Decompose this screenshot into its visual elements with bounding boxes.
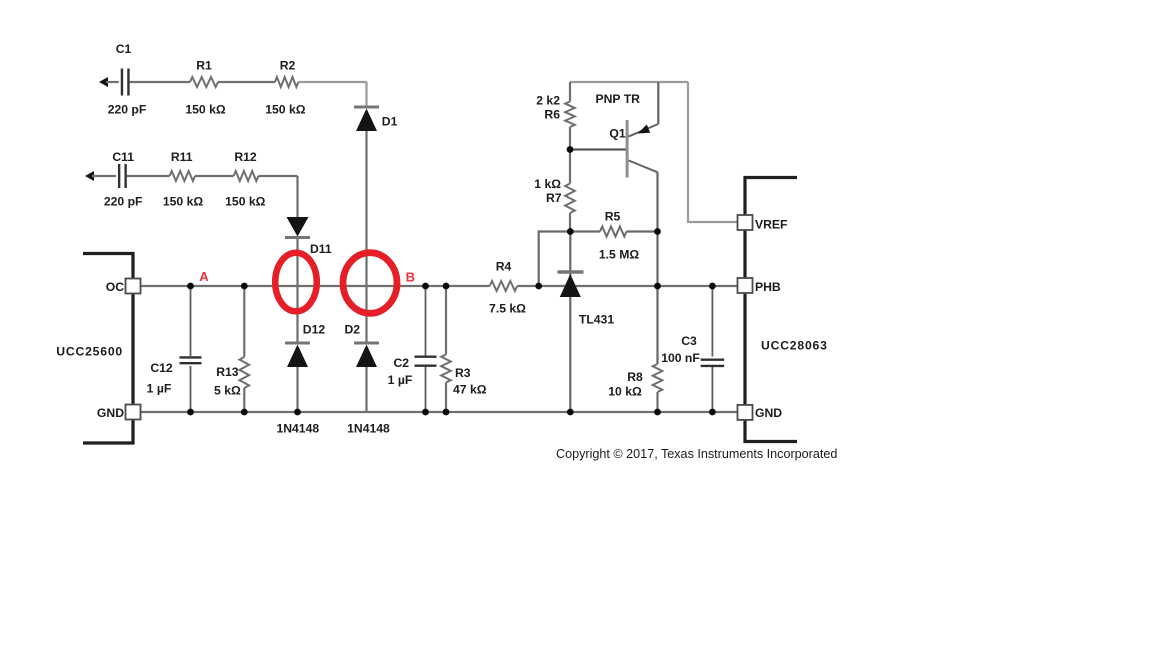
svg-text:D2: D2	[345, 323, 361, 337]
svg-text:A: A	[199, 269, 209, 284]
svg-text:R4: R4	[496, 260, 512, 274]
svg-text:PHB: PHB	[755, 280, 781, 294]
svg-text:C2: C2	[394, 356, 410, 370]
svg-text:1 kΩ: 1 kΩ	[534, 177, 561, 191]
svg-text:D12: D12	[303, 323, 326, 337]
svg-text:TL431: TL431	[579, 313, 614, 327]
svg-text:C1: C1	[116, 42, 132, 56]
svg-text:D11: D11	[310, 242, 332, 256]
svg-text:Copyright © 2017, Texas Instru: Copyright © 2017, Texas Instruments Inco…	[556, 447, 837, 461]
svg-text:47 kΩ: 47 kΩ	[453, 383, 487, 397]
svg-text:150 kΩ: 150 kΩ	[265, 103, 305, 117]
svg-text:100 nF: 100 nF	[661, 351, 700, 365]
svg-text:R6: R6	[544, 108, 560, 122]
svg-text:R5: R5	[605, 210, 621, 224]
svg-text:R7: R7	[546, 191, 562, 205]
svg-text:C3: C3	[681, 334, 697, 348]
svg-text:150 kΩ: 150 kΩ	[225, 195, 265, 209]
svg-text:10 kΩ: 10 kΩ	[608, 385, 642, 399]
svg-text:R3: R3	[455, 366, 471, 380]
svg-text:R2: R2	[280, 59, 296, 73]
svg-text:R13: R13	[216, 365, 239, 379]
svg-text:GND: GND	[755, 406, 782, 420]
svg-text:R8: R8	[627, 370, 643, 384]
svg-text:1 µF: 1 µF	[388, 373, 413, 387]
svg-text:220 pF: 220 pF	[104, 195, 143, 209]
svg-text:PNP TR: PNP TR	[596, 92, 641, 106]
svg-text:1N4148: 1N4148	[347, 422, 390, 436]
svg-text:R11: R11	[171, 150, 193, 164]
svg-text:1N4148: 1N4148	[276, 422, 319, 436]
svg-text:UCC25600: UCC25600	[56, 345, 123, 359]
svg-text:2 k2: 2 k2	[536, 94, 560, 108]
svg-text:C12: C12	[150, 361, 173, 375]
svg-text:UCC28063: UCC28063	[761, 339, 828, 353]
svg-text:1 µF: 1 µF	[147, 382, 172, 396]
svg-text:D1: D1	[382, 115, 398, 129]
svg-text:OC: OC	[106, 280, 124, 294]
svg-text:Q1: Q1	[609, 127, 625, 141]
svg-text:220 pF: 220 pF	[108, 103, 147, 117]
svg-text:R12: R12	[234, 150, 257, 164]
svg-text:150 kΩ: 150 kΩ	[163, 195, 203, 209]
svg-text:1.5 MΩ: 1.5 MΩ	[599, 248, 639, 262]
svg-text:VREF: VREF	[755, 218, 788, 232]
svg-text:B: B	[406, 270, 415, 285]
svg-text:GND: GND	[97, 406, 124, 420]
svg-text:150 kΩ: 150 kΩ	[185, 103, 225, 117]
svg-text:C11: C11	[112, 150, 134, 164]
svg-text:5 kΩ: 5 kΩ	[214, 384, 241, 398]
svg-text:7.5 kΩ: 7.5 kΩ	[489, 302, 526, 316]
svg-text:R1: R1	[196, 59, 212, 73]
